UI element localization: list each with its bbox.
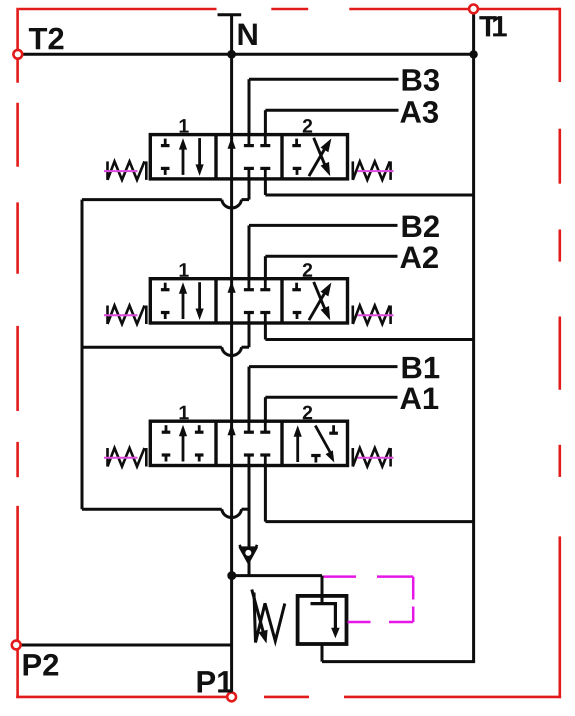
wire: B1 work-port line xyxy=(249,365,398,368)
wire: A2 work-port line xyxy=(265,255,397,258)
enclosure boundary bottom edge (red dashed) xyxy=(16,696,561,699)
wire: B2 work-port line xyxy=(249,224,398,227)
valve V2 (ports A2/B2) left spring detent line (magenta) xyxy=(104,314,138,316)
label B2 xyxy=(403,215,439,237)
valve V2 (ports A2/B2) position-1 symbols xyxy=(161,282,204,320)
valve V2 (ports A2/B2) right return spring xyxy=(353,306,391,325)
valve V1 (ports A1/B1) left return spring xyxy=(108,448,147,467)
valve V1 (ports A1/B1) position-2 symbols xyxy=(294,425,338,462)
valve V1 (ports A1/B1) position label 1 xyxy=(180,406,189,419)
valve V3 (ports A3/B3) position label 1 xyxy=(180,119,189,132)
check-valve flow arrow into pump gallery xyxy=(240,545,257,563)
node: junction N / tank line xyxy=(227,50,236,59)
node: junction T1 / tank line xyxy=(469,50,477,58)
enclosure boundary left edge (red dashed) xyxy=(16,8,19,698)
enclosure boundary top edge (red dashed) xyxy=(19,8,560,11)
valve V3 (ports A3/B3) left spring detent line (magenta) xyxy=(104,170,138,172)
valve V1 (ports A1/B1) body (3-position envelope) xyxy=(150,421,347,465)
relief valve adjustable spring xyxy=(254,593,285,643)
wire: T1 right return riser xyxy=(472,13,475,661)
valve V1 (ports A1/B1) position label 2 xyxy=(303,406,312,420)
valve V3 (ports A3/B3) position-2 symbols xyxy=(292,138,331,176)
wire: valve V2 bottom carry-over stub xyxy=(248,323,251,348)
valve V3 (ports A3/B3) right return spring xyxy=(353,161,391,180)
wire: N inlet cap at top xyxy=(218,13,242,16)
wire: valve V1 bottom power passage down to pump junction xyxy=(248,466,251,576)
port P2 circle xyxy=(12,641,21,650)
valve V3 (ports A3/B3) body (3-position envelope) xyxy=(150,135,347,179)
wire: left carry-over rail xyxy=(81,200,84,510)
valve V2 (ports A2/B2) left return spring xyxy=(108,306,147,325)
wire: carry-over link at y=347.2 with line jump over N xyxy=(82,347,249,355)
relief valve body xyxy=(298,596,347,644)
wire: valve V1 tank branch to right riser xyxy=(264,466,267,522)
label A1 xyxy=(400,388,438,409)
relief valve internal flow arrow xyxy=(311,604,340,639)
wire: A1 work-port line xyxy=(265,396,397,399)
valve V1 (ports A1/B1) center-position symbols (open centre arrow + blocked A/B ports) xyxy=(228,421,271,465)
relief valve adjustment arrow xyxy=(252,590,268,644)
wire: carry-over link at y=509.2 with line jump over N xyxy=(82,509,249,517)
valve V3 (ports A3/B3) right spring detent line (magenta) xyxy=(358,170,394,172)
valve V2 (ports A2/B2) body (3-position envelope) xyxy=(150,279,347,323)
port T2 circle xyxy=(13,50,22,59)
label A3 xyxy=(400,101,438,123)
wire: N vertical supply line (through all valve centres) xyxy=(230,15,233,576)
valve V2 (ports A2/B2) position label 2 xyxy=(303,263,312,277)
label B3 xyxy=(403,69,439,91)
pilot line (magenta dashed) from relief inlet xyxy=(324,577,414,622)
valve V3 (ports A3/B3) left return spring xyxy=(108,161,147,180)
valve V3 (ports A3/B3) center-position symbols (open centre arrow + blocked A/B ports) xyxy=(228,135,271,179)
valve V3 (ports A3/B3) position-1 symbols xyxy=(161,138,204,176)
wire: valve V3 tank branch to right riser xyxy=(264,179,267,195)
label P2 xyxy=(24,654,59,676)
wire: pump junction to relief valve inlet xyxy=(232,574,322,577)
valve V1 (ports A1/B1) position-1 symbols xyxy=(162,425,204,462)
wire: P2 pump port line xyxy=(21,644,232,647)
wire: T2 - T1 tank line xyxy=(22,53,474,56)
valve V2 (ports A2/B2) center-position symbols (open centre arrow + blocked A/B ports) xyxy=(228,279,271,323)
valve V1 (ports A1/B1) right spring detent line (magenta) xyxy=(358,457,394,459)
valve V3 (ports A3/B3) position label 2 xyxy=(303,119,312,133)
enclosure boundary right edge (red dashed) xyxy=(558,8,561,698)
wire: valve V3 bottom carry-over stub xyxy=(248,179,251,200)
valve V1 (ports A1/B1) right return spring xyxy=(353,448,391,467)
wire: A3 work-port line xyxy=(265,109,398,112)
port T1 circle xyxy=(469,4,478,13)
valve V1 (ports A1/B1) left spring detent line (magenta) xyxy=(104,457,138,459)
label A2 xyxy=(400,246,438,268)
valve V2 (ports A2/B2) right spring detent line (magenta) xyxy=(358,314,394,316)
node: P1 pump junction xyxy=(227,571,236,580)
valve V2 (ports A2/B2) position label 1 xyxy=(180,263,189,276)
wire: relief valve outlet to tank riser xyxy=(321,644,324,662)
label T1 xyxy=(479,16,506,36)
label B1 xyxy=(403,357,440,378)
valve V2 (ports A2/B2) position-2 symbols xyxy=(292,282,331,320)
wire: B3 work-port line xyxy=(249,78,399,81)
wire: N line down to P1 port xyxy=(230,576,233,693)
wire: carry-over link at y=199.6 with line jump over N xyxy=(82,200,249,208)
wire: valve V2 tank branch to right riser xyxy=(264,323,267,340)
label P1 xyxy=(198,671,233,692)
label N xyxy=(239,24,257,45)
label T2 xyxy=(29,28,64,50)
port P1 circle xyxy=(227,693,236,702)
